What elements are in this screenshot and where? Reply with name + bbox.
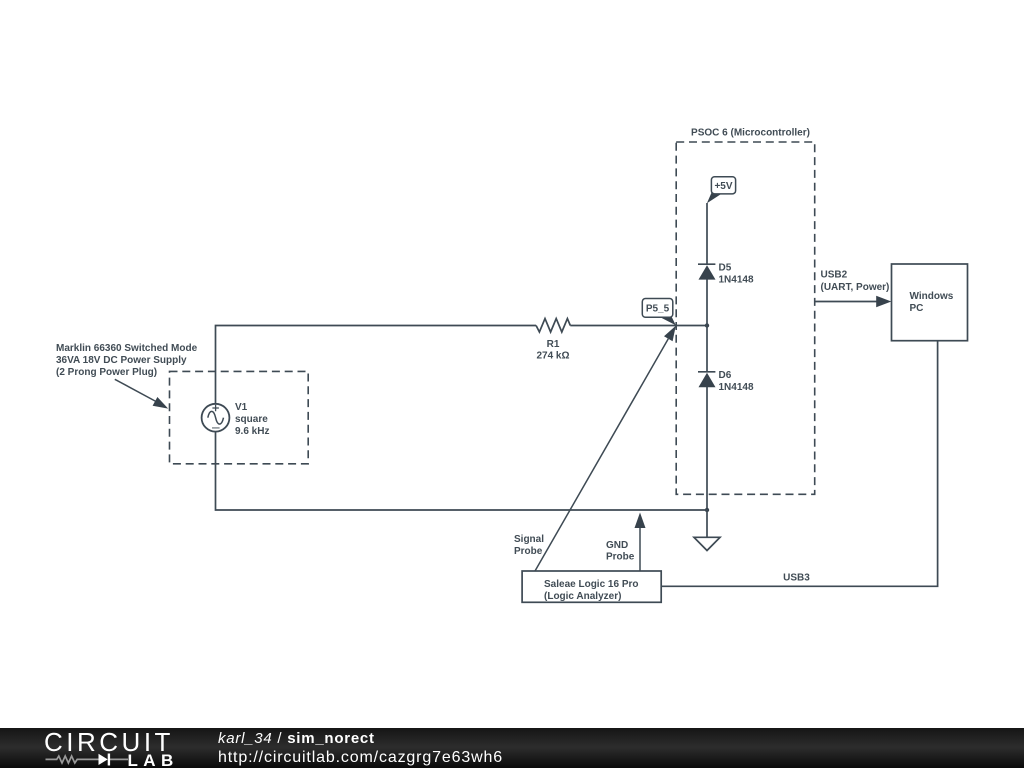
- wire D6 to ground node: [706, 387, 708, 510]
- svg-text:1N4148: 1N4148: [719, 275, 754, 286]
- svg-text:Windows: Windows: [910, 291, 954, 302]
- enclosure Marklin power supply dashed box: [170, 371, 309, 463]
- arrowhead USB2: [876, 296, 891, 308]
- svg-text:Probe: Probe: [606, 552, 635, 563]
- power flag +5V: [707, 177, 736, 204]
- footer bar: [0, 728, 1024, 768]
- svg-text:D5: D5: [719, 263, 732, 274]
- wire +5V flag to D5: [706, 203, 708, 265]
- svg-text:Signal: Signal: [514, 534, 544, 545]
- ground: [694, 537, 720, 550]
- svg-text:GND: GND: [606, 540, 628, 551]
- svg-text:Saleae Logic 16 Pro: Saleae Logic 16 Pro: [544, 579, 639, 590]
- svg-text:Marklin 66360 Switched Mode: Marklin 66360 Switched Mode: [56, 343, 198, 354]
- svg-text:+5V: +5V: [714, 181, 732, 192]
- wire R1 right terminal to node P5_5: [570, 325, 707, 327]
- svg-text:R1: R1: [547, 339, 560, 350]
- svg-text:PSOC 6 (Microcontroller): PSOC 6 (Microcontroller): [691, 128, 810, 139]
- annotation arrow to power supply: [115, 379, 168, 408]
- svg-text:274 kΩ: 274 kΩ: [536, 351, 569, 362]
- wire node to ground symbol: [706, 510, 708, 537]
- diode D5: [698, 264, 716, 279]
- CircuitLab logo: [0, 728, 220, 768]
- probe arrow GND Probe: [635, 513, 646, 572]
- svg-text:P5_5: P5_5: [646, 304, 670, 315]
- svg-text:(Logic Analyzer): (Logic Analyzer): [544, 591, 621, 602]
- svg-text:USB3: USB3: [783, 573, 810, 584]
- svg-text:V1: V1: [235, 402, 248, 413]
- junction dot at node P5_5: [705, 323, 709, 327]
- svg-text:(2 Prong Power Plug): (2 Prong Power Plug): [56, 367, 157, 378]
- svg-text:PC: PC: [910, 303, 924, 314]
- footer url: [218, 750, 503, 766]
- svg-text:Probe: Probe: [514, 546, 543, 557]
- diode D6: [698, 372, 716, 387]
- probe arrow Signal Probe: [535, 326, 676, 571]
- enclosure PSOC 6 dashed box: [676, 142, 815, 494]
- net flag P5_5: [642, 299, 676, 326]
- footer title karl_34 / sim_norect: [218, 731, 375, 746]
- wire V1 top to R1 left terminal: [216, 326, 537, 404]
- svg-text:square: square: [235, 414, 268, 425]
- svg-text:LAB: LAB: [128, 751, 179, 768]
- voltage source V1: [202, 404, 230, 432]
- svg-text:9.6 kHz: 9.6 kHz: [235, 426, 269, 437]
- svg-text:(UART, Power): (UART, Power): [821, 282, 890, 293]
- wire USB3: [661, 341, 937, 587]
- svg-text:D6: D6: [719, 370, 732, 381]
- wire D5 to node: [706, 279, 708, 325]
- block Saleae Logic 16 Pro: [522, 571, 661, 602]
- svg-text:USB2: USB2: [821, 270, 848, 281]
- wire USB2 to Windows PC: [815, 301, 877, 303]
- wire node to D6: [706, 326, 708, 373]
- junction dot at ground node: [705, 508, 709, 512]
- block Windows PC: [892, 264, 968, 341]
- svg-text:36VA 18V DC Power Supply: 36VA 18V DC Power Supply: [56, 355, 187, 366]
- wire V1 bottom to ground node: [216, 432, 708, 510]
- svg-text:1N4148: 1N4148: [719, 382, 754, 393]
- resistor R1: [536, 319, 570, 332]
